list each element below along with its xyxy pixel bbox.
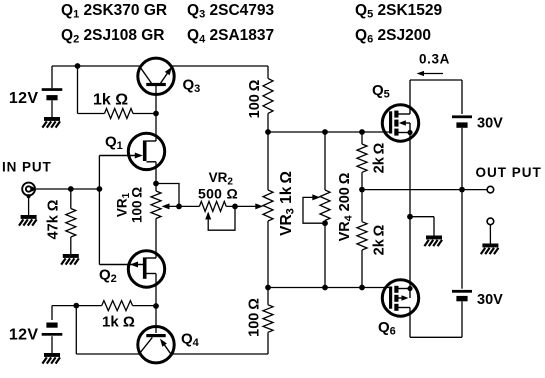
wire Q5 drain top jog (410, 79, 462, 81)
svg-text:Q6 2SJ200: Q6 2SJ200 (355, 27, 431, 46)
wire bottom rail drop (75, 306, 77, 354)
wire midpoint to battery B4 (461, 190, 463, 289)
arrow VR2 wiper (205, 212, 211, 220)
node junction Q3 base / 1k / Q1 drain (153, 111, 159, 117)
potentiometer VR2 500 ohm (199, 201, 226, 211)
wire 2k midpoint to battery midpoint (362, 189, 462, 191)
node junction input / gate column (97, 186, 103, 192)
input jack connector (22, 183, 35, 196)
node junction source / ground tap (407, 214, 413, 220)
wire top rail left (battery to Q3 collector side) (52, 65, 140, 67)
node junction B2 / 1k / bottom rail (73, 303, 79, 309)
wire Q5 drain up (409, 80, 411, 105)
wire 1k left lead (77, 66, 79, 114)
node junction VR2 right / wiper (232, 204, 238, 210)
svg-text:1k Ω: 1k Ω (102, 314, 135, 331)
wire 1k right lead (133, 113, 156, 115)
wire VR2 right lead (226, 205, 258, 207)
resistor R6 2k ohm top (357, 144, 367, 172)
svg-text:500 Ω: 500 Ω (198, 186, 238, 202)
svg-text:100 Ω: 100 Ω (247, 79, 263, 118)
battery B3 30V (452, 115, 472, 118)
wire output ground stem (489, 225, 491, 244)
wire VR3 top lead (267, 132, 269, 190)
node junction gate rail / VR3 top (265, 129, 271, 135)
transistor Q3 2SC4793 NPN (138, 58, 174, 94)
arrow VR3 wiper tip (255, 203, 263, 209)
svg-text:12V: 12V (9, 327, 39, 344)
resistor R4 100 ohm top (263, 78, 273, 113)
svg-text:100 Ω: 100 Ω (130, 187, 145, 223)
wire VR1 to VR2 (179, 205, 199, 207)
node junction bottom gate rail / 2k (359, 285, 365, 291)
svg-text:IN PUT: IN PUT (2, 160, 52, 175)
resistor R3 1k ohm bottom (102, 301, 133, 311)
wire 1k bottom right lead (133, 305, 156, 307)
wire 47k top lead (70, 189, 72, 209)
wire 2k top bottom lead (361, 172, 363, 189)
node junction input / 47k (68, 186, 74, 192)
wire 2k bottom top lead (361, 190, 363, 222)
node junction top rail / 1k ohm (75, 63, 81, 69)
wire VR3 bottom lead (267, 221, 269, 288)
wire battery B3 to midpoint (461, 128, 463, 190)
potentiometer VR3 1k ohm (263, 190, 273, 221)
transistor Q4 2SA1837 PNP (138, 327, 174, 363)
node junction 2k midpoint (359, 187, 365, 193)
node junction Q2 / 1k / Q4 base (153, 303, 159, 309)
wire Q2 drain vertical (155, 274, 157, 307)
wire output (462, 189, 487, 191)
wire VR1 top lead (155, 184, 157, 192)
ground input jack (21, 215, 37, 219)
battery B1 12V (51, 66, 53, 88)
wire bottom rail left (76, 353, 139, 355)
transistor Q2 2SJ108 P-JFET (128, 251, 164, 287)
output jack hot (487, 186, 494, 193)
svg-text:12V: 12V (9, 90, 39, 107)
wire VR4 top lead (324, 132, 326, 190)
wire bottom gate rail (268, 287, 391, 289)
potentiometer VR4 200 ohm (320, 190, 330, 221)
wire input jack ground stem (28, 195, 30, 215)
resistor R7 2k ohm bottom (357, 222, 367, 250)
node junction Q1 source / VR1 (153, 181, 159, 187)
ground below 47k (63, 254, 79, 258)
wire 2k top lead (361, 132, 363, 144)
svg-text:2k Ω: 2k Ω (372, 224, 388, 255)
svg-text:30V: 30V (477, 116, 503, 132)
node junction bottom gate rail / VR4 (322, 285, 328, 291)
node junction top gate rail / VR4 (322, 129, 328, 135)
wire battery B2 to junction (52, 305, 76, 307)
battery B2 12V (negative) (51, 306, 53, 320)
wire 100 ohm bottom to rail (267, 332, 269, 354)
node junction VR1 wiper / VR2 (176, 204, 182, 210)
battery B4 30V (452, 290, 472, 293)
svg-text:VR4 200 Ω: VR4 200 Ω (337, 172, 355, 241)
wire input to gates (34, 188, 99, 190)
wire bottom rail right of Q4 (173, 353, 269, 355)
svg-text:0.3A: 0.3A (419, 52, 450, 67)
resistor R1 1k ohm (105, 109, 134, 119)
node junction top gate rail / 2k (359, 129, 365, 135)
arrow current 0.3A (419, 73, 443, 75)
svg-text:OUT PUT: OUT PUT (476, 165, 542, 180)
wire top gate rail (268, 131, 391, 133)
wire 47k bottom lead (70, 237, 72, 254)
wire top rail corner to 100 ohm (267, 66, 269, 78)
wire 100 ohm to gate rail (267, 113, 269, 132)
svg-text:30V: 30V (477, 292, 503, 308)
ground below battery B2 (44, 353, 60, 357)
transistor Q6 2SJ200 P-MOSFET (382, 280, 418, 316)
wire bottom to Q6 drain (410, 336, 462, 338)
transistor Q1 2SK370 N-JFET (128, 133, 164, 169)
wire Q4 base lead (155, 306, 157, 333)
wire ground tap (410, 216, 434, 218)
wire VR4 bottom lead (324, 221, 326, 288)
arrow VR4 wiper (312, 194, 320, 200)
svg-text:VR3 1k Ω: VR3 1k Ω (278, 171, 297, 236)
wire VR1 bottom to Q2 (155, 219, 157, 259)
ground below battery B1 (44, 117, 60, 121)
wire VR2 wiper loop (208, 206, 235, 230)
ground output jack (482, 244, 498, 248)
wire source column Q5-Q6 (409, 133, 411, 289)
svg-text:2k Ω: 2k Ω (372, 142, 388, 173)
node junction bottom gate rail / VR3 (265, 285, 271, 291)
ground source tap (426, 236, 442, 240)
wire VR4 wiper loop (303, 197, 325, 223)
svg-text:47k Ω: 47k Ω (46, 199, 62, 239)
arrow VR1 wiper (162, 203, 170, 209)
wire Q1 source vertical (155, 162, 157, 184)
resistor R2 47k ohm (66, 209, 76, 238)
svg-text:100 Ω: 100 Ω (247, 298, 263, 337)
output jack ground terminal (487, 218, 494, 225)
wire Q3 base lead (155, 86, 157, 114)
wire Q1 drain vertical (155, 114, 157, 142)
wire 100 ohm bottom top lead (267, 288, 269, 305)
svg-text:1k Ω: 1k Ω (93, 92, 128, 109)
node junction VR4 wiper / bottom (322, 220, 328, 226)
transistor Q5 2SK1529 N-MOSFET (382, 105, 418, 141)
wire top rail right of Q3 (173, 65, 269, 67)
resistor R5 100 ohm bottom (263, 305, 273, 333)
wire gate column Q1-Q2 (98, 156, 100, 265)
wire 2k bottom lead (361, 250, 363, 288)
wire 1k bottom left lead (76, 305, 101, 307)
node junction battery midpoint / output (459, 187, 465, 193)
potentiometer VR1 100 ohm (151, 191, 161, 219)
wire VR1 wiper loop (156, 184, 179, 207)
wire battery B4 down (461, 301, 463, 337)
wire to battery B3 (461, 80, 463, 114)
